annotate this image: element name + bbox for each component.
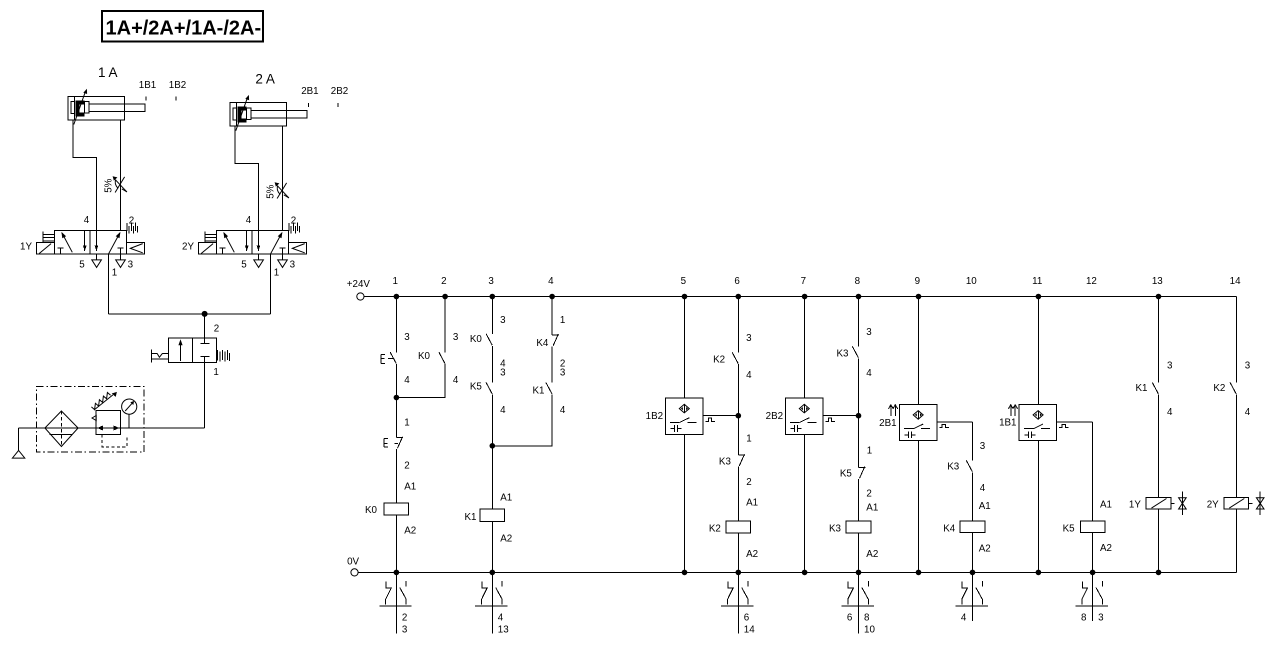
wire 2A left port to valve 2Y port 4	[235, 126, 259, 230]
contact K1 path4 3-4	[533, 367, 566, 416]
proximity sensor 1B2	[646, 398, 703, 434]
svg-text:4: 4	[246, 215, 252, 226]
svg-text:1B2: 1B2	[169, 80, 186, 91]
svg-text:3: 3	[488, 276, 494, 287]
svg-text:5%: 5%	[103, 178, 114, 192]
svg-text:1B2: 1B2	[646, 411, 663, 422]
svg-text:K1: K1	[533, 385, 545, 396]
svg-text:6: 6	[744, 612, 750, 623]
svg-text:K1: K1	[1136, 383, 1148, 394]
pulse symbol 2B2	[825, 418, 835, 421]
cylinder 1A	[68, 65, 145, 124]
svg-text:4: 4	[1245, 407, 1251, 418]
wire K1 to 0V	[491, 521, 493, 572]
wire path12 from 1B1 to coil K5	[1092, 422, 1094, 521]
wire path4 mid	[551, 346, 553, 382]
contact table K5	[1076, 572, 1108, 623]
svg-text:K0: K0	[470, 334, 483, 345]
wire path10 to coil K4	[972, 472, 974, 521]
svg-text:2B1: 2B1	[879, 418, 896, 429]
svg-text:4: 4	[453, 375, 459, 386]
proximity sensor 2B2	[766, 398, 823, 434]
wire K4 to 0V	[972, 533, 974, 573]
wire path1 to coil K0	[395, 449, 397, 503]
svg-text:A1: A1	[866, 503, 878, 514]
svg-text:K3: K3	[837, 349, 850, 360]
svg-text:7: 7	[801, 276, 806, 287]
wire path1 from +24V	[395, 297, 397, 353]
pressure regulator	[91, 392, 127, 447]
junction path3/path4	[490, 443, 496, 449]
wire path10 from 2B1	[972, 422, 974, 461]
svg-text:A2: A2	[404, 525, 416, 536]
wire path6 from +24V	[737, 297, 739, 353]
gauge stem	[128, 414, 130, 428]
svg-text:4: 4	[498, 612, 504, 623]
svg-text:2Y: 2Y	[182, 242, 194, 253]
svg-text:K3: K3	[947, 461, 960, 472]
wire 2A right port to valve 2Y port 2	[282, 126, 284, 230]
contact K3 path8 3-4	[837, 327, 873, 379]
svg-text:A1: A1	[979, 501, 991, 512]
relay coil K4	[943, 521, 990, 554]
wire path4 to path3	[492, 395, 552, 446]
wire path5 from +24V	[684, 297, 686, 399]
wire path2 from +24V	[444, 297, 446, 353]
svg-text:1: 1	[392, 276, 397, 287]
sensor mark 2B2	[331, 86, 348, 107]
svg-text:A1: A1	[404, 482, 416, 493]
wire K3 to 0V	[858, 533, 860, 573]
svg-text:3: 3	[402, 624, 408, 635]
svg-text:4: 4	[980, 483, 986, 494]
junction manifold	[202, 311, 208, 317]
wire path14 from +24V	[1235, 297, 1237, 383]
svg-text:12: 12	[1086, 276, 1097, 287]
wire 1B2 output to path6	[703, 415, 738, 417]
sensor mark 1B1	[139, 80, 156, 101]
svg-text:1Y: 1Y	[1129, 499, 1141, 510]
junction path1/path2	[394, 395, 400, 401]
svg-text:A2: A2	[1100, 543, 1112, 554]
svg-text:K5: K5	[840, 469, 853, 480]
svg-text:1: 1	[112, 268, 117, 279]
svg-text:1A+/2A+/1A-/2A-: 1A+/2A+/1A-/2A-	[106, 18, 262, 40]
junctions +24V rail	[394, 294, 1162, 300]
svg-text:5: 5	[241, 259, 247, 270]
pulse symbol 2B1	[939, 425, 949, 428]
wire path8 to coil K3	[858, 479, 860, 521]
svg-text:2: 2	[746, 477, 751, 488]
relay coil K2	[709, 521, 758, 560]
svg-text:2: 2	[402, 612, 407, 623]
wire 3/2 port 1 down to supply line	[204, 362, 206, 428]
wire 1Y to 0V	[1158, 509, 1160, 572]
svg-text:4: 4	[404, 375, 410, 386]
svg-text:K3: K3	[829, 523, 842, 534]
wire K2 to 0V	[737, 533, 739, 573]
cylinder 2A	[230, 71, 307, 130]
svg-text:3: 3	[1245, 361, 1251, 372]
svg-text:1: 1	[746, 434, 751, 445]
junctions 0V rail	[394, 570, 1162, 576]
svg-text:K2: K2	[709, 523, 721, 534]
svg-text:4: 4	[746, 370, 752, 381]
valve 3/2 manually operated	[152, 323, 230, 378]
wire 1B1 output to path12	[1057, 421, 1093, 423]
svg-text:14: 14	[744, 624, 755, 635]
pressure gauge	[122, 399, 137, 414]
svg-text:13: 13	[498, 624, 509, 635]
svg-text:6: 6	[847, 612, 853, 623]
wire path1	[395, 364, 397, 437]
svg-text:13: 13	[1152, 276, 1163, 287]
pulse symbol 1B2	[705, 418, 715, 421]
svg-text:5: 5	[79, 259, 85, 270]
air service unit frame	[37, 387, 144, 453]
svg-text:6: 6	[734, 276, 740, 287]
svg-text:1Y: 1Y	[20, 242, 32, 253]
proximity sensor 2B1 (actuated)	[879, 404, 937, 440]
throttle valve 5% (2A)	[275, 182, 289, 198]
svg-text:3: 3	[560, 367, 566, 378]
proximity sensor 1B1 (actuated)	[999, 404, 1057, 440]
wire path3 from +24V	[491, 297, 493, 334]
junction 1B2/path6	[736, 413, 742, 419]
svg-text:K3: K3	[719, 456, 732, 467]
svg-text:K1: K1	[465, 512, 477, 523]
svg-text:10: 10	[864, 624, 875, 635]
switch S1 (E) make contact path1 3-4	[381, 332, 410, 386]
wire valve 2Y port 1 down	[269, 254, 271, 314]
contact K2 path14 3-4	[1213, 361, 1250, 418]
+24V supply rail	[347, 279, 1237, 300]
svg-text:A1: A1	[746, 497, 758, 508]
svg-text:2B2: 2B2	[331, 86, 348, 97]
svg-text:2: 2	[441, 276, 446, 287]
svg-text:2Y: 2Y	[1207, 499, 1219, 510]
wire 3/2 port 2 up to manifold	[204, 314, 206, 338]
sensor mark 1B2	[169, 80, 186, 101]
svg-text:5%: 5%	[265, 184, 276, 198]
svg-text:3: 3	[1098, 612, 1104, 623]
svg-text:2 A: 2 A	[255, 71, 275, 86]
svg-text:3: 3	[980, 441, 986, 452]
solenoid coil 1Y	[1129, 491, 1186, 515]
relay coil K0	[365, 503, 416, 537]
svg-text:A2: A2	[979, 543, 991, 554]
svg-text:4: 4	[560, 405, 566, 416]
svg-text:5: 5	[681, 276, 687, 287]
wire path7 from +24V	[804, 297, 806, 399]
wire path4 from +24V	[551, 297, 553, 335]
svg-text:K2: K2	[713, 355, 725, 366]
contact K3 path10 3-4	[947, 460, 985, 494]
pulse symbol 1B1	[1059, 425, 1069, 428]
filter with water separator	[45, 411, 78, 447]
wire 1A right port to valve 1Y port 2	[120, 120, 122, 230]
wire manifold horizontal	[108, 313, 270, 315]
wire path14 to solenoid 2Y	[1235, 395, 1237, 498]
svg-text:1: 1	[404, 418, 409, 429]
wire K0 to 0V	[395, 515, 397, 572]
contact table K3	[841, 572, 875, 635]
contact K3 path6 1-2 break	[719, 454, 752, 488]
wire K5 to 0V	[1092, 533, 1094, 573]
contact table K0	[379, 572, 411, 635]
wire path5 to 0V	[684, 434, 686, 572]
contact K0 path3 3-4	[470, 315, 506, 369]
svg-text:A2: A2	[746, 549, 758, 560]
svg-text:1: 1	[274, 268, 279, 279]
svg-text:2: 2	[291, 215, 296, 226]
svg-text:14: 14	[1230, 276, 1241, 287]
wire path9 from +24V	[918, 297, 920, 405]
svg-text:3: 3	[128, 259, 134, 270]
wire path8 from +24V	[858, 297, 860, 347]
contact K5 path3 3-4	[470, 367, 506, 416]
wire path13 to solenoid 1Y	[1158, 395, 1160, 498]
compressed air source	[12, 428, 24, 458]
contact table K4	[955, 572, 987, 623]
svg-text:8: 8	[1081, 612, 1087, 623]
wire 1A left port to valve 1Y port 4	[73, 120, 97, 230]
svg-text:2: 2	[129, 215, 134, 226]
svg-text:4: 4	[84, 215, 90, 226]
svg-text:A1: A1	[1100, 500, 1112, 511]
svg-text:8: 8	[864, 612, 870, 623]
relay coil K1	[465, 509, 513, 544]
contact table K1	[475, 572, 509, 635]
contact K5 path8 1-2 break	[840, 467, 872, 500]
svg-text:A2: A2	[500, 533, 512, 544]
svg-text:4: 4	[866, 368, 872, 379]
svg-text:1 A: 1 A	[98, 65, 118, 80]
sensor mark 2B1	[301, 86, 318, 107]
svg-text:K0: K0	[418, 351, 431, 362]
svg-text:3: 3	[290, 259, 296, 270]
relay coil K3	[829, 521, 878, 560]
relay coil K5	[1063, 521, 1112, 554]
svg-text:11: 11	[1032, 276, 1042, 287]
svg-text:4: 4	[548, 276, 554, 287]
svg-text:K4: K4	[943, 523, 956, 534]
svg-text:10: 10	[966, 276, 977, 287]
contact K4 path4 1-2 break	[536, 315, 565, 369]
supply line	[18, 427, 204, 429]
svg-text:1B1: 1B1	[139, 80, 156, 91]
svg-text:3: 3	[453, 332, 459, 343]
junction 2B2/path8	[856, 413, 862, 419]
svg-text:1B1: 1B1	[999, 418, 1016, 429]
wire path7 to 0V	[804, 434, 806, 572]
wire path2 to path1	[396, 364, 445, 397]
solenoid coil 2Y	[1207, 491, 1264, 515]
svg-text:3: 3	[404, 332, 410, 343]
wire path6 mid	[737, 364, 739, 455]
svg-text:2B1: 2B1	[301, 86, 318, 97]
svg-text:1: 1	[213, 367, 218, 378]
svg-text:1: 1	[867, 445, 872, 456]
wire 2Y to 0V	[1235, 509, 1237, 572]
svg-text:K0: K0	[365, 505, 378, 516]
svg-text:A1: A1	[500, 492, 512, 503]
svg-text:K5: K5	[1063, 523, 1076, 534]
svg-text:3: 3	[1167, 361, 1173, 372]
svg-text:9: 9	[915, 276, 920, 287]
svg-text:K2: K2	[1213, 383, 1225, 394]
wire 2B2 output to path8	[823, 415, 859, 417]
valve 1Y 5/2 solenoid valve	[20, 215, 144, 279]
svg-text:3: 3	[866, 327, 872, 338]
wire path8 mid	[858, 358, 860, 467]
svg-text:4: 4	[961, 612, 967, 623]
column numbers 1-14	[392, 276, 1241, 287]
wire path11 to 0V	[1037, 441, 1039, 573]
wire path9 to 0V	[918, 441, 920, 573]
title box 1A+/2A+/1A-/2A-	[102, 11, 263, 42]
svg-text:A2: A2	[866, 549, 878, 560]
wire path6 to coil K2	[737, 466, 739, 521]
wire path13 from +24V	[1158, 297, 1160, 383]
svg-text:K5: K5	[470, 382, 483, 393]
svg-text:2: 2	[214, 323, 219, 334]
svg-text:4: 4	[500, 405, 506, 416]
svg-text:2: 2	[866, 489, 871, 500]
wire 2B1 output to path10	[937, 421, 973, 423]
throttle valve 5% (1A)	[113, 176, 127, 192]
wire valve 1Y port 1 down	[107, 254, 109, 314]
svg-text:4: 4	[1167, 407, 1173, 418]
svg-text:2B2: 2B2	[766, 411, 783, 422]
wire path11 from +24V	[1037, 297, 1039, 405]
svg-text:K4: K4	[536, 338, 549, 349]
svg-text:3: 3	[500, 315, 506, 326]
contact K2 path6 3-4	[713, 333, 752, 381]
svg-text:3: 3	[746, 333, 752, 344]
0V rail	[347, 557, 1236, 576]
svg-text:+24V: +24V	[347, 279, 371, 290]
svg-text:3: 3	[500, 367, 506, 378]
svg-text:1: 1	[560, 315, 565, 326]
switch S2 (E) break contact path1 1-2	[384, 437, 410, 472]
svg-text:0V: 0V	[347, 557, 359, 568]
svg-text:2: 2	[404, 460, 409, 471]
svg-text:8: 8	[855, 276, 861, 287]
valve 2Y 5/2 solenoid valve	[182, 215, 306, 279]
contact table K2	[721, 572, 755, 635]
wire path3 mid	[491, 346, 493, 383]
contact K1 path13 3-4	[1136, 361, 1173, 418]
contact K0 path2 3-4	[418, 332, 459, 386]
wire path3 to coil K1	[491, 395, 493, 510]
